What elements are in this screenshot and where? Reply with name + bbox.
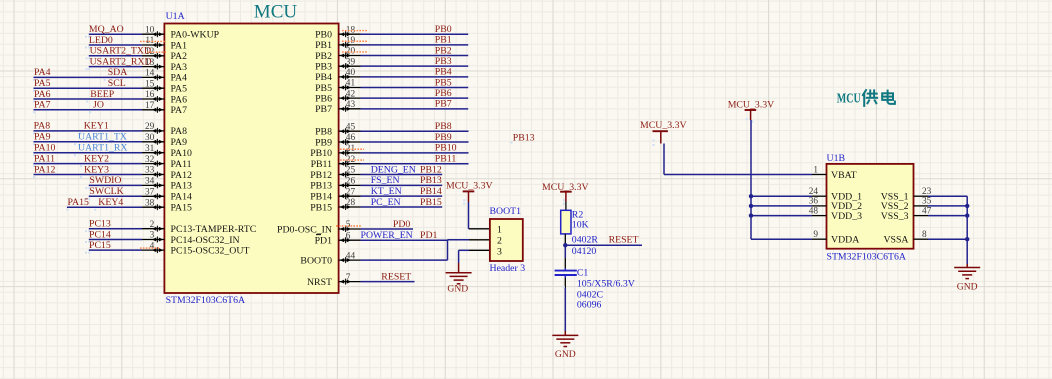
junction VSSA [965, 237, 969, 241]
wire net USART2_RXD [89, 66, 142, 68]
svg-text:BEEP: BEEP [90, 89, 115, 100]
U1A pin 42 [339, 89, 361, 101]
U1B pin 24 VDD_1 [809, 187, 862, 203]
net label PA5 [34, 78, 51, 89]
wire VSS rail [928, 196, 967, 264]
pin name PB5 [315, 83, 332, 94]
wire junction to C1 [564, 245, 566, 258]
net label PB13 [420, 175, 442, 186]
svg-text:39: 39 [346, 57, 356, 67]
svg-text:9: 9 [813, 230, 818, 240]
junction VSS_3 [965, 213, 969, 217]
U1B designator [827, 153, 846, 164]
wire dots [85, 187, 90, 189]
svg-text:PB11: PB11 [311, 159, 333, 170]
svg-text:MCU: MCU [254, 2, 298, 23]
svg-text:PB9: PB9 [315, 137, 332, 148]
svg-text:PA4: PA4 [171, 73, 188, 84]
svg-text:Header 3: Header 3 [490, 263, 526, 274]
wire dots [85, 252, 90, 254]
pin name PB12 [310, 170, 332, 181]
wire net JO [34, 109, 143, 111]
svg-text:PA9: PA9 [171, 137, 188, 148]
wire dots [33, 79, 106, 81]
svg-text:PB10: PB10 [435, 143, 457, 154]
svg-text:PA13: PA13 [171, 181, 193, 192]
R2 lower pin [564, 234, 566, 245]
net label KT_EN [371, 186, 402, 197]
svg-text:30: 30 [145, 133, 155, 143]
U1B part number STM32F103C6T6A [827, 252, 906, 263]
junction VDD_2 [749, 204, 753, 208]
svg-text:KEY4: KEY4 [98, 197, 123, 208]
U1A pin 13 [142, 58, 164, 70]
svg-text:GND: GND [555, 349, 576, 360]
net label PC14 [89, 229, 111, 240]
svg-text:PC13-TAMPER-RTC: PC13-TAMPER-RTC [171, 224, 257, 235]
svg-text:PC15: PC15 [89, 240, 111, 251]
svg-text:SWDIO: SWDIO [89, 175, 121, 186]
svg-text:PB1: PB1 [435, 35, 452, 46]
net label SDA [108, 67, 128, 78]
net label PA4 [34, 67, 51, 78]
svg-text:8: 8 [922, 230, 927, 240]
svg-text:VSS_3: VSS_3 [881, 211, 909, 222]
svg-text:PC13: PC13 [89, 219, 111, 230]
net label PA6 [34, 89, 51, 100]
svg-text:3: 3 [150, 231, 155, 241]
C1 upper pin [564, 258, 566, 268]
wire net PB4 [361, 76, 469, 78]
net label PB11 [435, 153, 457, 164]
wire C1 to GND [564, 288, 566, 331]
svg-text:PB9: PB9 [435, 132, 452, 143]
power port MCU_3.3V (BOOT1) [446, 181, 493, 205]
svg-text:PB3: PB3 [315, 61, 332, 72]
U1A pin 12 [142, 47, 164, 59]
svg-text:PA7: PA7 [34, 100, 51, 111]
title MCU [254, 2, 298, 23]
wire net PB1 [361, 44, 469, 46]
U1A pin 6 [339, 231, 361, 243]
net label DENG_EN [371, 164, 416, 175]
svg-text:PA3: PA3 [171, 62, 188, 73]
svg-text:PB15: PB15 [310, 202, 332, 213]
wire net SWDIO [89, 184, 142, 186]
pin name PB6 [315, 93, 332, 104]
net label PB10 [435, 143, 457, 154]
wire MCU_3.3V to VBAT [664, 144, 812, 175]
pin name PC13-TAMPER-RTC [171, 224, 257, 235]
svg-text:MQ_AO: MQ_AO [89, 24, 124, 35]
net label PB8 [435, 121, 452, 132]
svg-text:VDDA: VDDA [831, 235, 859, 246]
net label PA8 [34, 121, 51, 132]
pin name NRST [307, 277, 332, 288]
BOOT1 pin 2 stub [469, 239, 490, 241]
junction R2/C1/RESET [563, 243, 567, 247]
svg-text:PB8: PB8 [435, 121, 452, 132]
R2 value 10K [572, 219, 589, 230]
wire net PD0 [361, 228, 414, 230]
svg-text:PB5: PB5 [315, 83, 332, 94]
svg-text:KEY3: KEY3 [84, 164, 109, 175]
BOOT1 value Header 3 [490, 263, 526, 274]
C1 designator [577, 267, 589, 278]
pin name PD1 (active low) [315, 235, 333, 247]
svg-text:PB6: PB6 [315, 93, 332, 104]
ground GND (C1) [552, 331, 578, 360]
net label RESET [381, 271, 411, 282]
svg-text:17: 17 [145, 101, 155, 111]
svg-text:SCL: SCL [108, 78, 126, 89]
junction VSS_2 [965, 204, 969, 208]
svg-text:U1B: U1B [827, 153, 846, 164]
U1A pin 25 [339, 166, 361, 178]
svg-text:PA9: PA9 [34, 132, 51, 143]
U1B pin 35 VSS_2 [881, 197, 932, 213]
wire net PB8 [361, 130, 469, 132]
floating net label PB13 [511, 132, 535, 143]
svg-text:VBAT: VBAT [831, 170, 857, 181]
svg-text:DENG_EN: DENG_EN [371, 164, 416, 175]
C1 comment 06096 [577, 299, 602, 310]
net label PB2 [435, 45, 452, 56]
U1A pin 28 [339, 198, 361, 210]
svg-text:PA8: PA8 [171, 126, 188, 137]
svg-text:29: 29 [145, 122, 155, 132]
svg-text:GND: GND [957, 282, 978, 293]
BOOT1 pin 1 [497, 225, 502, 236]
U1A pin 46 [339, 133, 361, 145]
wire net BEEP [34, 98, 143, 100]
wire net PB13 [361, 184, 443, 186]
svg-text:PB11: PB11 [435, 153, 457, 164]
svg-text:33: 33 [145, 166, 155, 176]
pin name PA0-WKUP [171, 30, 220, 41]
svg-text:PB14: PB14 [420, 186, 442, 197]
U1A designator [166, 11, 185, 22]
net label USART2_TXD [90, 46, 151, 57]
U1A pin 33 [142, 166, 164, 178]
net label USART2_RXD [90, 56, 152, 67]
wire net PB0 [361, 33, 469, 35]
U1A pin 31 [142, 144, 164, 156]
svg-text:MCU_3.3V: MCU_3.3V [640, 120, 687, 131]
net label KEY2 [84, 153, 109, 164]
svg-text:16: 16 [145, 90, 155, 100]
R2 footprint 0402R [572, 234, 599, 245]
pin name PB13 [310, 181, 332, 192]
svg-text:PA10: PA10 [34, 143, 56, 154]
svg-text:NRST: NRST [307, 277, 332, 288]
pin name PB1 [315, 40, 332, 51]
wire net PB9 [361, 141, 469, 143]
wire dots [85, 198, 90, 200]
wire dots [33, 132, 82, 134]
svg-text:25: 25 [346, 166, 356, 176]
pin name PA2 [171, 51, 188, 62]
svg-text:PB2: PB2 [435, 45, 452, 56]
BOOT1 pin 2 [497, 235, 502, 246]
svg-text:USART2_TXD: USART2_TXD [90, 46, 151, 57]
pin name PA14 [171, 192, 193, 203]
wire net KEY1 [34, 130, 143, 132]
wire net PC14 [89, 239, 142, 241]
net label BEEP [90, 89, 115, 100]
U1A pin 4 [142, 241, 164, 253]
svg-text:PB0: PB0 [315, 30, 332, 41]
pin name PA4 [171, 73, 188, 84]
svg-text:PB13: PB13 [310, 181, 332, 192]
svg-text:28: 28 [346, 198, 356, 208]
pin name PB4 [315, 72, 332, 83]
svg-text:7: 7 [346, 273, 351, 283]
svg-text:32: 32 [145, 155, 155, 165]
svg-text:06096: 06096 [577, 299, 602, 310]
svg-text:SDA: SDA [108, 67, 128, 78]
wire dots [66, 209, 96, 211]
svg-text:POWER_EN: POWER_EN [361, 230, 413, 241]
U1A pin 21 [339, 144, 361, 156]
svg-text:RESET: RESET [609, 235, 639, 246]
svg-text:U1A: U1A [166, 11, 185, 22]
pin name PB8 [315, 127, 332, 138]
svg-text:PA11: PA11 [171, 159, 192, 170]
U1A pin 30 [142, 133, 164, 145]
svg-text:UART1_TX: UART1_TX [78, 132, 127, 143]
net label KEY3 [84, 164, 109, 175]
wire VDD rail [751, 120, 812, 239]
U1A pin 16 [142, 90, 164, 102]
pin name PA7 [171, 105, 188, 116]
svg-text:36: 36 [809, 197, 819, 207]
pin name PD0-OSC_IN [277, 224, 332, 235]
net label PA10 [34, 143, 56, 154]
R2 designator [572, 209, 584, 220]
net label UART1_RX [78, 143, 128, 154]
svg-text:PB7: PB7 [315, 104, 332, 115]
svg-text:PA12: PA12 [34, 164, 56, 175]
svg-text:STM32F103C6T6A: STM32F103C6T6A [827, 252, 906, 263]
wire dots [33, 90, 106, 92]
wire dots [85, 47, 90, 49]
svg-text:KEY1: KEY1 [84, 121, 109, 132]
U1A pin 32 [142, 155, 164, 167]
svg-text:43: 43 [346, 100, 356, 110]
pin name PA3 [171, 62, 188, 73]
svg-text:PC14: PC14 [89, 229, 111, 240]
svg-text:40: 40 [346, 68, 356, 78]
net label MQ_AO [89, 24, 124, 35]
U1A pin 40 [339, 68, 361, 80]
net label POWER_EN [361, 230, 413, 241]
net label PA11 [34, 153, 55, 164]
U1A pin 37 [142, 188, 164, 200]
wire net USART2_TXD [89, 55, 142, 57]
svg-text:MCU_3.3V: MCU_3.3V [446, 181, 493, 192]
wire dots [33, 154, 76, 156]
pin name PB3 [315, 61, 332, 72]
net label PB5 [435, 77, 452, 88]
svg-text:PC14-OSC32_IN: PC14-OSC32_IN [171, 235, 240, 246]
wire net KEY4 [67, 206, 142, 208]
net label PC13 [89, 219, 111, 230]
wire net PB12 [361, 174, 443, 176]
svg-text:1: 1 [497, 225, 502, 236]
net label JO [93, 100, 104, 111]
wire net LED0 [89, 44, 142, 46]
pin name PA13 [171, 181, 193, 192]
wire net RESET from R2 [565, 244, 642, 246]
svg-text:PC15-OSC32_OUT: PC15-OSC32_OUT [171, 245, 250, 256]
wire BOOT1 pin1 to MCU_3.3V [468, 202, 471, 229]
U1A pin 27 [339, 187, 361, 199]
svg-text:44: 44 [346, 251, 356, 261]
svg-text:42: 42 [346, 89, 356, 99]
wire net PC15 [89, 249, 142, 251]
BOOT1 pin 3 [497, 247, 502, 258]
svg-text:KT_EN: KT_EN [371, 186, 402, 197]
net label PB9 [435, 132, 452, 143]
wire BOOT1 pin3 to GND [459, 250, 469, 263]
svg-text:MCU: MCU [837, 92, 861, 107]
wire net UART1_TX [34, 141, 143, 143]
net label FS_EN [371, 175, 400, 186]
svg-text:0402R: 0402R [572, 234, 599, 245]
pin name PC15-OSC32_OUT [171, 245, 250, 256]
svg-text:BOOT1: BOOT1 [490, 206, 522, 217]
svg-text:14: 14 [145, 69, 155, 79]
svg-text:JO: JO [93, 100, 104, 111]
U1A pin 43 [339, 100, 361, 112]
svg-text:48: 48 [809, 206, 819, 216]
U1A pin 10 [142, 25, 164, 37]
U1A pin 38 [142, 198, 164, 210]
pin name PA9 [171, 137, 188, 148]
svg-text:41: 41 [346, 79, 356, 89]
power port MCU_3.3V (U1B) [728, 99, 775, 122]
wire net KEY3 [34, 174, 143, 176]
wire dots [33, 143, 76, 145]
svg-text:MCU_3.3V: MCU_3.3V [728, 99, 775, 110]
svg-text:27: 27 [346, 187, 356, 197]
wire net RESET at NRST [361, 281, 415, 283]
net label PB3 [435, 56, 452, 67]
U1A pin 14 [142, 69, 164, 81]
C1 value 105/X5R/6.3V [577, 278, 635, 289]
net label PA7 [34, 100, 51, 111]
U1A pin 2 [142, 220, 164, 232]
wire dots [85, 230, 90, 232]
wire net PB5 [361, 87, 469, 89]
R2 upper pin [565, 202, 567, 211]
svg-text:31: 31 [145, 144, 155, 154]
svg-text:24: 24 [809, 187, 819, 197]
pin name PB15 [310, 202, 332, 213]
junction VDD_3 [749, 213, 753, 217]
junction VDD_1 [749, 194, 753, 198]
svg-text:PB14: PB14 [310, 191, 332, 202]
svg-text:PD0: PD0 [393, 219, 411, 230]
svg-text:KEY2: KEY2 [84, 153, 109, 164]
wire net KEY2 [34, 163, 143, 165]
svg-text:PB7: PB7 [435, 99, 452, 110]
U1A pin 41 [339, 79, 361, 91]
svg-text:04120: 04120 [572, 246, 597, 257]
U1A pin 7 [339, 273, 361, 285]
svg-text:38: 38 [145, 198, 155, 208]
net label SWCLK [89, 186, 123, 197]
svg-text:PB6: PB6 [435, 88, 452, 99]
svg-text:PD1: PD1 [315, 236, 333, 247]
U1A pin 26 [339, 177, 361, 189]
svg-text:PA2: PA2 [171, 51, 188, 62]
svg-text:PC_EN: PC_EN [371, 197, 401, 208]
power port MCU_3.3V (VBAT) [640, 120, 687, 146]
wire net PB14 [361, 195, 443, 197]
svg-text:PA8: PA8 [34, 121, 51, 132]
svg-text:PA1: PA1 [171, 40, 188, 51]
BOOT1 pin 3 stub [469, 249, 490, 251]
U1B pin 9 VDDA [812, 230, 859, 246]
net label PB14 [420, 186, 442, 197]
wire dots [85, 241, 90, 243]
U1A pin 17 [142, 101, 164, 113]
pin name PB2 [315, 51, 332, 62]
wire net UART1_RX [34, 152, 143, 154]
pin name PA1 [171, 40, 188, 51]
pin name PA6 [171, 94, 188, 105]
svg-text:SWCLK: SWCLK [89, 186, 123, 197]
svg-text:PA11: PA11 [34, 153, 55, 164]
wire net MQ_AO [89, 33, 142, 35]
wire net SWCLK [89, 195, 142, 197]
svg-text:PA12: PA12 [171, 170, 193, 181]
U1A pin 34 [142, 177, 164, 189]
svg-text:PA10: PA10 [171, 148, 193, 159]
net label PA15 [68, 197, 90, 208]
svg-text:2: 2 [497, 235, 502, 246]
U1A pin 45 [339, 122, 361, 134]
svg-text:2: 2 [150, 220, 155, 230]
wire dots [85, 36, 90, 38]
svg-text:45: 45 [346, 122, 356, 132]
net label PB0 [435, 24, 452, 35]
U1A pin 18 [339, 25, 361, 37]
net label PC15 [89, 240, 111, 251]
svg-text:PA15: PA15 [171, 203, 193, 214]
svg-text:PA5: PA5 [34, 78, 51, 89]
wire net PB6 [361, 97, 469, 99]
svg-text:PB2: PB2 [315, 51, 332, 62]
pin name BOOT0 [300, 255, 332, 266]
ground GND (BOOT1) [446, 263, 472, 294]
U1A pin 11 [142, 36, 164, 48]
svg-text:PA6: PA6 [171, 94, 188, 105]
wire net SDA [34, 76, 143, 78]
svg-text:PD1: PD1 [420, 230, 438, 241]
R2 comment 04120 [572, 246, 597, 257]
svg-text:PA4: PA4 [34, 67, 51, 78]
svg-text:PB5: PB5 [435, 77, 452, 88]
svg-text:PB15: PB15 [420, 197, 442, 208]
svg-text:PA15: PA15 [68, 197, 90, 208]
wire dots [33, 165, 82, 167]
net label PA9 [34, 132, 51, 143]
ground GND (U1B) [954, 264, 980, 293]
svg-text:34: 34 [145, 177, 155, 187]
